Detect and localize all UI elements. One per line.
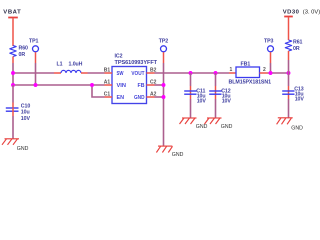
wire VIN rail: [13, 84, 105, 86]
pin number B1: [104, 67, 111, 73]
label BLM15PX181SN1: [229, 80, 272, 86]
junction GND pin: [162, 95, 166, 99]
node VBAT: [3, 10, 21, 16]
svg-text:10V: 10V: [197, 99, 207, 105]
ground C12: [205, 118, 233, 130]
svg-text:GND: GND: [196, 124, 208, 130]
pin SW stub: [105, 72, 113, 74]
test point TP1: [29, 38, 39, 63]
label C11 10u 10V: [196, 89, 206, 105]
pin number 1 (FB1): [230, 67, 233, 73]
pin number B2: [150, 67, 157, 73]
pin number 2 (FB1): [263, 67, 266, 73]
capacitor C11: [184, 73, 196, 99]
svg-text:VBAT: VBAT: [3, 10, 21, 16]
pin VIN stub: [105, 84, 113, 86]
svg-text:0R: 0R: [19, 52, 26, 58]
svg-text:10V: 10V: [295, 97, 305, 103]
wire TP1 to VIN rail: [35, 63, 37, 85]
pin name VIN: [117, 83, 127, 89]
label C13 10u 10V: [294, 86, 304, 102]
svg-text:10u: 10u: [21, 110, 30, 116]
svg-text:GND: GND: [291, 125, 303, 131]
svg-text:A1: A1: [104, 79, 111, 85]
pin name SW: [117, 71, 124, 77]
svg-text:VOUT: VOUT: [131, 71, 145, 77]
pin GND stub: [147, 96, 155, 98]
IC IC2 TPS610993YFFT box: [112, 67, 147, 104]
label R61 0R: [293, 39, 303, 52]
label IC2 TPS610993YFFT: [115, 54, 158, 66]
svg-text:EN: EN: [117, 95, 125, 101]
test point TP3: [264, 38, 274, 63]
junction FB: [162, 83, 166, 87]
svg-text:TP1: TP1: [29, 38, 39, 44]
svg-text:FB1: FB1: [241, 61, 251, 67]
wire SW rail left (VBAT to L1): [13, 72, 54, 74]
svg-text:L1: L1: [57, 62, 63, 68]
resistor R61: [285, 40, 291, 60]
junction VBAT/VIN: [11, 83, 15, 87]
pin VOUT stub: [147, 72, 155, 74]
junction TP1/VIN: [34, 83, 38, 87]
svg-text:FB: FB: [138, 83, 145, 89]
svg-text:GND: GND: [172, 152, 184, 158]
wire VBAT net vertical to junctions: [12, 63, 14, 85]
svg-text:GND: GND: [17, 146, 29, 152]
svg-text:C10: C10: [21, 104, 31, 110]
junction EN/VIN: [90, 83, 94, 87]
svg-text:VIN: VIN: [117, 83, 127, 89]
wire L1 to SW pin: [88, 72, 105, 74]
ground C11: [180, 118, 208, 130]
svg-text:2: 2: [263, 67, 266, 73]
pin name GND: [134, 95, 145, 101]
wire EN branch: [92, 85, 105, 97]
svg-text:1.0uH: 1.0uH: [69, 62, 83, 68]
junction TP3: [269, 71, 273, 75]
svg-text:B1: B1: [104, 67, 111, 73]
capacitor C12: [209, 73, 221, 99]
svg-text:TPS610993YFFT: TPS610993YFFT: [115, 60, 158, 66]
label C10 10u 10V: [21, 104, 31, 122]
resistor R60: [10, 46, 16, 64]
pin FB stub: [147, 84, 155, 86]
svg-text:BLM15PX181SN1: BLM15PX181SN1: [229, 80, 272, 86]
junction VBAT/SW: [11, 71, 15, 75]
wire C13 to ground: [288, 99, 290, 118]
junction C12: [214, 71, 218, 75]
wire C11 to ground: [190, 99, 192, 118]
svg-text:0R: 0R: [293, 46, 300, 52]
inductor L1: [54, 70, 88, 73]
svg-text:GND: GND: [134, 95, 145, 101]
svg-text:(3. 0V): (3. 0V): [303, 9, 320, 15]
wire TP2/FB/GND vertical: [163, 63, 165, 146]
test point TP2: [159, 38, 169, 63]
pin number C2: [150, 79, 157, 85]
svg-text:GND: GND: [221, 124, 233, 130]
svg-text:TP3: TP3: [264, 38, 274, 44]
svg-text:R61: R61: [293, 39, 303, 45]
ground C10: [2, 139, 29, 152]
ground C13: [277, 118, 303, 132]
wire C12 to ground: [215, 99, 217, 118]
power symbol VBAT bar: [8, 17, 18, 46]
pin name VOUT: [131, 71, 145, 77]
pin number A2: [150, 91, 157, 97]
label C12 10u 10V: [221, 89, 231, 105]
svg-text:C1: C1: [104, 91, 111, 97]
node VD30: [283, 9, 320, 15]
pin EN stub: [105, 96, 113, 98]
label L1 1.0uH: [57, 62, 83, 68]
ground TP2 net: [156, 146, 183, 158]
pin number A1: [104, 79, 111, 85]
junction R61/C13: [287, 71, 291, 75]
capacitor C10: [6, 85, 19, 116]
wire R61 to VOUT rail: [288, 60, 290, 73]
label FB1: [241, 61, 251, 67]
svg-text:R60: R60: [19, 45, 29, 51]
svg-text:1: 1: [230, 67, 233, 73]
label R60 0R: [19, 45, 29, 58]
wire FB to TP2 line: [155, 84, 164, 86]
pin name FB: [138, 83, 145, 89]
wire VOUT rail: [155, 72, 230, 74]
pin name EN: [117, 95, 125, 101]
svg-text:10V: 10V: [222, 99, 232, 105]
wire C10 to ground: [12, 116, 14, 139]
junction C11: [189, 71, 193, 75]
svg-text:VD30: VD30: [283, 9, 300, 15]
pin number C1: [104, 91, 111, 97]
ferrite bead FB1: [229, 67, 268, 78]
wire FB1 to VD30 node: [268, 72, 289, 74]
capacitor C13: [282, 73, 294, 99]
svg-text:10V: 10V: [21, 116, 31, 122]
wire TP3 down: [270, 63, 272, 73]
wire GND pin to TP2 line: [155, 96, 164, 98]
svg-text:IC2: IC2: [115, 54, 123, 60]
svg-text:TP2: TP2: [159, 38, 169, 44]
svg-text:SW: SW: [117, 71, 124, 77]
power symbol VD30 bar: [284, 16, 293, 40]
